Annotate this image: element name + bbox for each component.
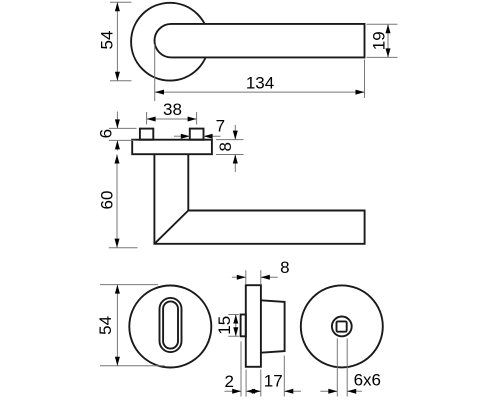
square spindle hole (337, 321, 347, 331)
svg-text:6x6: 6x6 (354, 371, 381, 390)
dimensions 2 and 17: arrowheads (232, 389, 241, 394)
dimension 8 bottom: arrows (232, 276, 246, 278)
dimension 7: left arrow (174, 135, 190, 137)
right screw post (190, 129, 204, 140)
dimension 60: extension line (109, 247, 138, 249)
rose plate profile (246, 285, 261, 367)
dimension 60: dimension line (116, 155, 118, 248)
dimension 6x6: arrows (320, 390, 337, 392)
rose boss cone profile (261, 300, 285, 352)
rose plate side view (132, 140, 212, 155)
dimension 19: extension lines (367, 24, 398, 57)
dimensions 2 and 17: extension lines (241, 342, 284, 397)
dimension 134: extension lines (155, 44, 365, 101)
svg-text:6: 6 (96, 129, 115, 138)
lever handle side view outline (154, 154, 364, 244)
keyhole outer obround (160, 298, 182, 352)
dimension 54 top: extension lines (110, 2, 132, 81)
dimension 54 bottom: extension lines (100, 285, 165, 366)
svg-text:54: 54 (98, 31, 117, 50)
dimension 54 bottom: arrowheads (115, 285, 120, 294)
keyhole inner obround (163, 301, 178, 348)
lever handle top view (155, 24, 365, 58)
svg-text:54: 54 (96, 316, 115, 335)
svg-text:15: 15 (215, 316, 234, 335)
dimension 38: dimension line (147, 118, 197, 120)
dimension 15: extension lines (228, 315, 239, 337)
dimension 134: arrowheads (155, 90, 164, 95)
spindle boss circle (332, 317, 352, 337)
key collar tab (241, 315, 246, 337)
dimension 38: arrowheads (147, 117, 156, 122)
left screw post (140, 129, 153, 140)
rose circle top view (131, 3, 209, 81)
dimension 8 bottom: extension lines (246, 270, 261, 284)
svg-text:38: 38 (163, 100, 182, 119)
wc rose circle (301, 285, 383, 367)
dimension 6: extension lines (109, 128, 137, 140)
lever corner diagonal (154, 211, 188, 244)
dimensions 2 and 17: dimension lines (225, 390, 302, 392)
svg-text:60: 60 (97, 191, 116, 210)
dimension 15: arrowheads (233, 315, 238, 324)
svg-text:17: 17 (264, 371, 283, 390)
dimension 60: arrowheads (115, 155, 120, 164)
dimension 54 top: arrowheads (115, 2, 120, 11)
dimension 54 top: dimension line (116, 2, 118, 81)
svg-text:134: 134 (246, 74, 274, 93)
dimension 134: dimension line (155, 91, 365, 93)
svg-text:2: 2 (224, 372, 233, 391)
dimension 8 side view: arrows (234, 125, 236, 140)
key rose circle (129, 286, 211, 368)
dimension 6: arrows (116, 112, 118, 129)
svg-text:8: 8 (216, 142, 235, 151)
svg-text:8: 8 (280, 258, 289, 277)
dimension 15: dimension line (235, 315, 237, 337)
dimension 19: arrowheads (386, 24, 391, 33)
dimension 6x6: extension lines (337, 339, 347, 397)
dimension 38: extension lines (147, 112, 197, 125)
dimension 19: dimension line (387, 24, 389, 57)
dimension 54 bottom: dimension line (116, 285, 118, 366)
svg-text:19: 19 (370, 31, 389, 50)
dimension 7: right arrow (204, 135, 221, 137)
svg-text:7: 7 (216, 117, 225, 136)
dimension 8 side view: extension lines (216, 140, 244, 155)
